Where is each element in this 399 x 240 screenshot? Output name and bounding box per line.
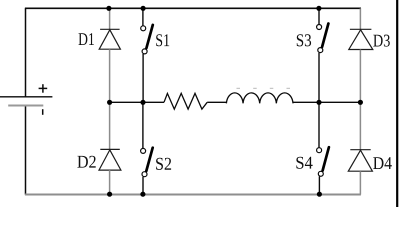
wire bottom rail (25, 194, 361, 196)
resistor R (164, 93, 207, 109)
battery minus label (42, 109, 44, 115)
node A switch junction (140, 100, 145, 105)
switch S1 (141, 25, 153, 54)
wire D2 column lower (109, 170, 111, 194)
battery plus label (39, 84, 48, 93)
wire node A to D2 (109, 102, 111, 149)
node B right junction (358, 100, 363, 105)
switch S3 (317, 24, 329, 53)
label D3 (373, 35, 390, 47)
wire node B rail to D4 (359, 102, 361, 149)
wire node A to S2 (142, 102, 144, 148)
wire node B to S4 (318, 102, 320, 147)
label S4 (296, 157, 312, 169)
diode D1 (99, 29, 120, 49)
node top S1 junction (141, 6, 146, 11)
wire D3 column upper (359, 8, 361, 29)
node bottom S2 junction (140, 192, 145, 197)
switch S2 (141, 148, 153, 177)
diode D4 (348, 150, 372, 172)
label D4 (373, 157, 392, 169)
wire S3 to node B (318, 53, 320, 103)
node top S3 junction (316, 6, 321, 11)
label D2 (77, 156, 95, 168)
frame border right (396, 0, 398, 207)
wire S1 to node A (142, 54, 144, 102)
node top-left junction (106, 6, 111, 11)
switch S4 (317, 147, 329, 176)
node bottom D2 junction (107, 192, 112, 197)
label S2 (156, 158, 171, 170)
wire S3 stub upper (318, 8, 320, 24)
label S1 (156, 34, 169, 46)
wire left rail upper (25, 8, 27, 97)
wire inductor to node B (293, 101, 319, 103)
wire S2 stub lower (142, 177, 144, 195)
wire S1 stub upper (142, 8, 144, 26)
inductor L (226, 93, 293, 104)
label S3 (297, 34, 311, 46)
wire D1 to node A (109, 49, 111, 102)
wire node B to right rail (319, 101, 360, 103)
node B switch junction (316, 100, 321, 105)
diode D2 (99, 149, 121, 170)
battery V1 positive plate (0, 96, 52, 98)
inductor coil marks (237, 87, 291, 89)
battery V1 negative plate (8, 104, 43, 106)
diode D3 (349, 29, 373, 49)
wire D1 column upper (109, 8, 111, 29)
node A left junction (107, 100, 112, 105)
wire middle line left (110, 101, 164, 103)
wire S4 stub lower (318, 176, 320, 194)
wire D4 column lower (359, 171, 361, 194)
label D1 (79, 33, 94, 45)
wire resistor to inductor (207, 101, 226, 103)
wire top rail (25, 7, 361, 9)
wire left rail lower (25, 106, 27, 195)
node bottom S4 junction (317, 192, 322, 197)
wire D3 to node B (359, 50, 361, 103)
